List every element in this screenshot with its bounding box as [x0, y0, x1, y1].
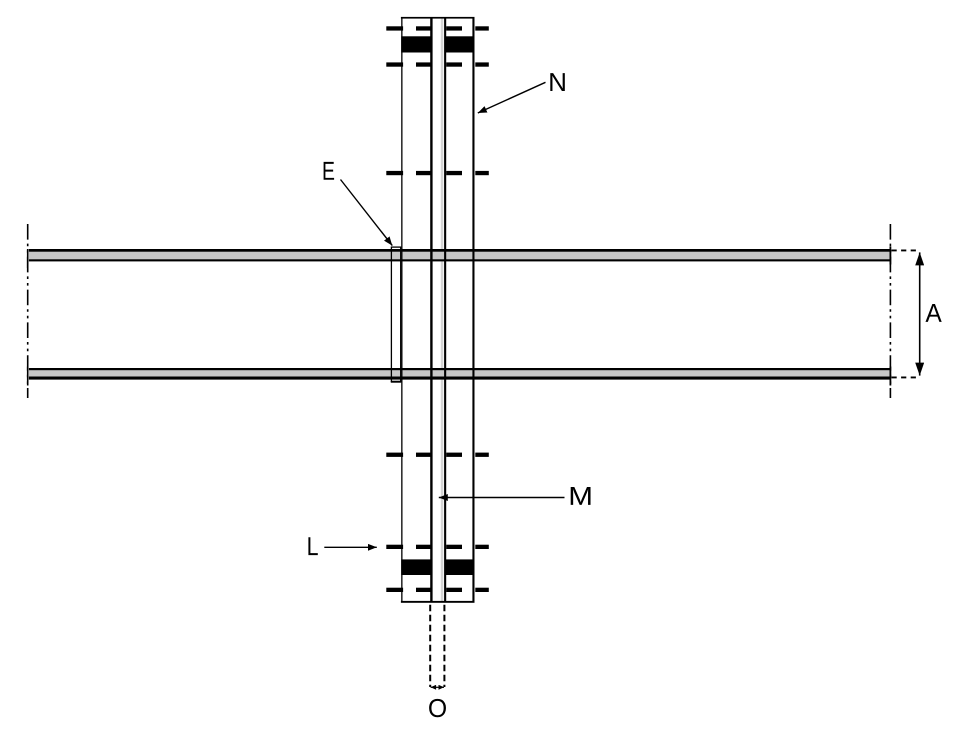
- leader arrow E: [341, 180, 393, 246]
- column outer-right flange line: [472, 17, 474, 603]
- dashed extension line bottom right: [892, 376, 919, 378]
- bolt dash row 1: [386, 26, 489, 30]
- label M: [571, 487, 591, 505]
- label N: [550, 73, 565, 91]
- label L: [308, 537, 317, 555]
- column inner-left plate line: [430, 17, 432, 603]
- gap dimension double arrow O: [431, 686, 444, 688]
- bolt dash row 5: [386, 545, 489, 549]
- label E: [324, 162, 334, 180]
- beam top flange bar: [29, 249, 890, 261]
- label A: [925, 304, 941, 322]
- label O: [429, 699, 446, 717]
- leader arrow M: [439, 497, 565, 499]
- leader arrow N: [478, 82, 546, 113]
- leader arrow L: [324, 546, 377, 548]
- top black packer band left: [401, 36, 431, 52]
- bolt dash row 3: [386, 171, 489, 175]
- end plate E bottom edge: [391, 381, 402, 383]
- right dash-dot centreline: [889, 224, 891, 398]
- dashed gap projection line right (below column): [443, 605, 445, 687]
- column bottom edge: [401, 601, 475, 603]
- column inner-right plate line: [444, 17, 446, 603]
- right centreline solid crossing at beam: [890, 247, 892, 265]
- beam bottom flange bar: [29, 368, 890, 380]
- left centreline solid crossing at beam: [27, 249, 29, 268]
- column centre gap line M (light grey strip): [441, 18, 444, 602]
- top black packer band right: [445, 36, 473, 52]
- end plate E rectangle: [391, 247, 400, 381]
- bolt dash row 2: [386, 62, 489, 66]
- bolt dash row 6: [386, 588, 489, 592]
- column outer-left flange line: [401, 17, 402, 603]
- dashed gap projection line left (below column): [429, 605, 431, 687]
- left dash-dot centreline: [27, 224, 29, 398]
- bottom black packer band left: [401, 559, 431, 575]
- column top edge: [401, 17, 475, 19]
- bolt dash row 4: [386, 453, 489, 457]
- bottom black packer band right: [445, 559, 473, 575]
- dimension arrow A (double headed): [919, 252, 921, 375]
- dashed extension line top right: [892, 249, 919, 251]
